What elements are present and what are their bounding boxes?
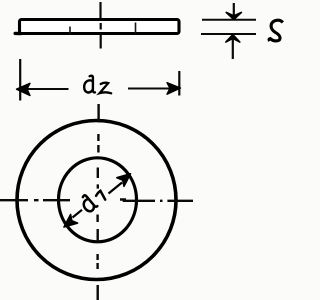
center line vertical (side view) [99,2,101,49]
d1 dimension line lower-left segment [73,210,83,218]
label S [269,20,283,41]
d2 arrowhead left [17,83,31,95]
S arrow line lower [232,37,234,59]
label d1 (rotated) [78,193,97,213]
d2 arrowhead right [167,83,181,95]
d2 dimension line right segment [128,88,178,90]
d2 extension line right [178,71,180,96]
front view outer circle [17,121,176,280]
d2 dimension line left segment [21,88,69,90]
d1 dimension line upper-right segment [109,183,123,194]
hidden hole edge dash left (side view) [69,27,71,35]
label d1 digit 1 (caret stroke) [96,191,105,200]
S arrow line upper [233,3,235,18]
d1 arrowhead lower-left (points to inner circle) [64,215,78,228]
d2 extension line left [19,59,21,101]
S extension line lower [201,33,256,35]
S arrowhead lower (points up) [226,35,240,42]
front view inner circle (hole) [59,158,137,242]
S extension line upper [202,19,256,21]
washer side view outline [20,20,180,34]
d1 arrowhead upper-right (points to inner circle) [117,174,131,187]
S arrowhead upper (points down) [226,12,241,19]
center line horizontal (front view) [0,200,193,201]
side view bottom-left corner overshoot [15,32,21,36]
center line vertical (front view) [98,104,99,300]
label d2 [84,76,111,94]
hidden hole edge dash right (side view) [135,23,137,34]
